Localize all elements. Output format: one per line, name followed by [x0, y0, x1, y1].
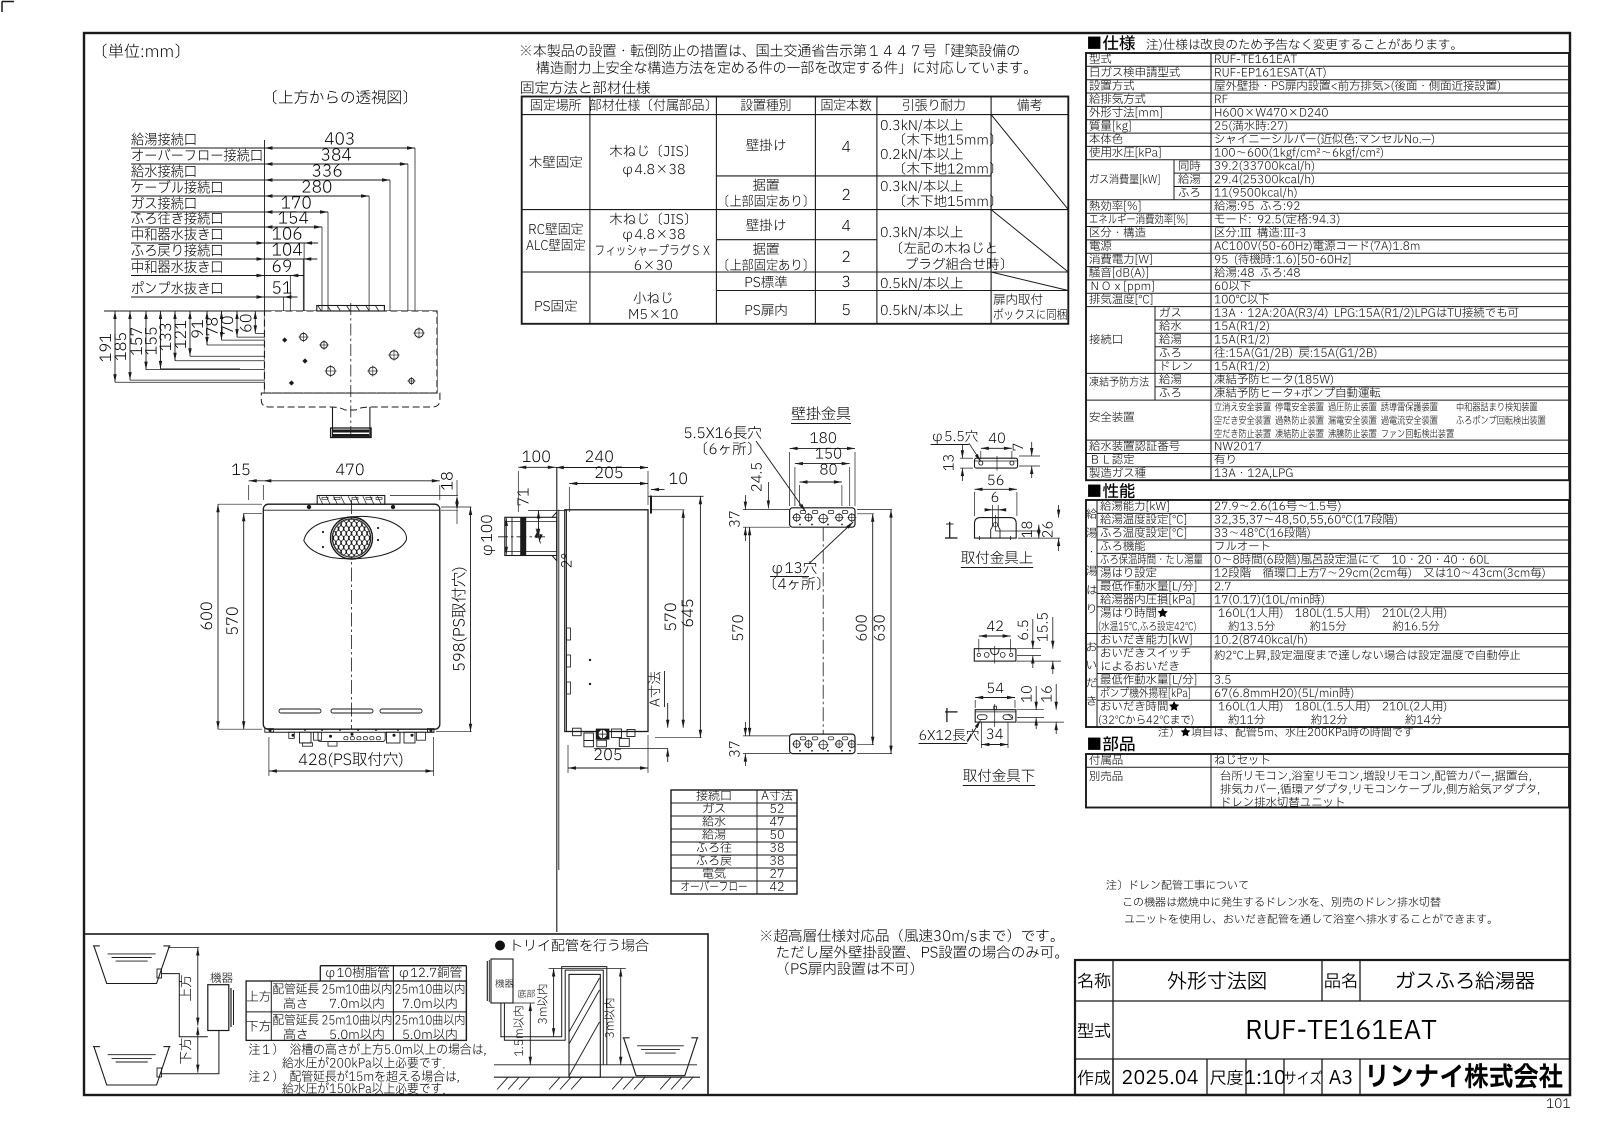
- upper tub: [94, 946, 169, 984]
- corner tabs: [265, 729, 274, 733]
- label 中和器水抜き口: [132, 228, 221, 241]
- exhaust duct top view: [333, 407, 370, 437]
- spec row 質量[kg]: [1089, 120, 1130, 132]
- perf row ふろ保温時間・たし湯量: [1101, 554, 1203, 564]
- dim 2deg: [561, 554, 571, 568]
- dim 104: [265, 258, 318, 260]
- dim 18: [441, 472, 453, 489]
- vdim 78: [221, 311, 223, 340]
- upper fitting title: [961, 551, 1032, 564]
- dim 205 top: [569, 483, 648, 485]
- dim 100: [518, 466, 556, 468]
- label 中和器水抜き口: [132, 260, 221, 273]
- dim 24.5: [751, 463, 762, 491]
- perf row 給湯器内圧損[kPa]: [1100, 594, 1194, 605]
- spec row 日ガス検申請型式: [1091, 67, 1180, 77]
- hole note: [773, 561, 817, 576]
- bottom flange outline: [261, 393, 440, 410]
- title row3: [1112, 1059, 1114, 1095]
- upper fitting plate2 (hook): [975, 518, 1017, 539]
- torii dim 3m right: [620, 969, 622, 1065]
- updown dims: [197, 948, 199, 1026]
- label 給湯接続口: [131, 133, 195, 146]
- vdim 60: [254, 311, 256, 333]
- slot note: [685, 426, 762, 439]
- device top-view dashed body: [265, 311, 438, 393]
- left vertical dims group: [104, 310, 265, 312]
- unit note: [103, 43, 179, 58]
- spec row 給排気方式: [1089, 93, 1145, 103]
- dim 6: [992, 492, 999, 502]
- spec row 外形寸法[mm]: [1089, 107, 1161, 118]
- dim 154: [265, 226, 323, 228]
- freeze prevention rows: [1154, 373, 1156, 400]
- corner trim mark: [2, 1, 14, 3]
- spec row 騒音[dB(A)]: [1086, 279, 1569, 281]
- upper fitting plate1: [975, 458, 1018, 468]
- machine box: [208, 985, 229, 1031]
- torii piping title: [495, 941, 505, 951]
- dim 18: [1022, 522, 1033, 538]
- dim 37 top: [729, 511, 740, 527]
- title block: [1075, 960, 1570, 1095]
- dim 10: [1021, 686, 1032, 702]
- col2 parts: [610, 145, 688, 157]
- spec row 設置方式: [1090, 80, 1134, 90]
- phi5.5 note: [933, 430, 978, 444]
- oidaki rows: [1101, 634, 1191, 645]
- title row2: [1078, 1023, 1110, 1038]
- label ポンプ水抜き口: [132, 281, 222, 294]
- bottom vents: [279, 709, 321, 713]
- spec row ＮＯｘ[ppm]: [1086, 292, 1569, 294]
- slot note lower: [920, 729, 979, 741]
- side wall line: [556, 467, 558, 932]
- dim 280: [265, 195, 370, 197]
- perf row 最低作動水量[L/分]: [1101, 581, 1197, 592]
- page number 101: [1547, 1098, 1570, 1108]
- kabekake bottom plate: [790, 734, 855, 754]
- screws on top edge: [307, 505, 311, 509]
- top plate holes: [793, 514, 800, 521]
- fan grille: [331, 517, 373, 559]
- dim 6.5: [1018, 620, 1028, 639]
- dim 150: [795, 463, 850, 465]
- dim 170: [265, 211, 329, 213]
- piping length table: [320, 965, 466, 967]
- col4 counts: [842, 141, 850, 152]
- vdim 185: [129, 311, 131, 380]
- dim 180: [790, 447, 855, 449]
- spec row 使用水圧[kPa]: [1089, 147, 1160, 158]
- spec row エネルギー消費効率[%]: [1086, 226, 1569, 228]
- spec table grid: [1086, 53, 1569, 480]
- drain note: [1106, 880, 1247, 890]
- top view title: [273, 90, 407, 104]
- datum L mark upper: [949, 522, 951, 538]
- dim 600: [217, 504, 219, 729]
- dim 51: [265, 296, 298, 298]
- exhaust pipe side: [505, 517, 557, 555]
- dim 13: [943, 455, 954, 470]
- dim 26: [1042, 522, 1053, 537]
- perf row ふろ機能: [1101, 540, 1145, 550]
- dim 570 side: [682, 510, 684, 728]
- dim 240: [556, 467, 648, 469]
- spec row 排気温度[℃]: [1086, 306, 1569, 308]
- torii dim 3m left: [553, 969, 555, 1037]
- vdim 121: [189, 311, 191, 356]
- dim 69: [265, 275, 305, 277]
- dim phi100: [505, 518, 507, 555]
- lower fitting title: [963, 769, 1034, 782]
- torii machine: [491, 959, 513, 1003]
- last simple rows: [1086, 439, 1569, 441]
- vdim 155: [160, 311, 162, 369]
- dim 470: [263, 480, 440, 482]
- label ケーブル接続口: [132, 180, 222, 193]
- vdim 133: [174, 311, 176, 361]
- spec row 熱効率[%]: [1086, 212, 1569, 214]
- small diamonds: [282, 337, 287, 342]
- dim 630: [890, 510, 892, 754]
- bottom connectors: [289, 732, 295, 738]
- dim 37 bottom: [729, 741, 740, 757]
- dim 42: [979, 635, 1011, 637]
- perf row 湯はり設定: [1100, 567, 1156, 577]
- vdim 91: [206, 311, 208, 345]
- vertical group labels: [1086, 508, 1097, 518]
- dim 598 right: [470, 507, 472, 732]
- perf table grid: [1086, 500, 1569, 727]
- dim 15.5: [1037, 613, 1047, 641]
- front top bracket: [317, 496, 385, 505]
- perf yuhari time row: [1100, 607, 1167, 617]
- connection rows: [1154, 307, 1156, 374]
- center dash-dot: [351, 500, 353, 729]
- side dots: [589, 659, 591, 661]
- label ふろ往き接続口: [132, 212, 222, 225]
- lower tub: [94, 1047, 169, 1085]
- dim 54: [975, 697, 1015, 699]
- torii pipe (double line): [501, 967, 607, 1065]
- spec row 本体色: [1090, 134, 1123, 144]
- torii dim 1.5m: [529, 1003, 531, 1065]
- perf row 給湯温度設定[℃]: [1100, 514, 1186, 525]
- vdim 70: [236, 311, 238, 337]
- lower plate1: [974, 649, 1016, 661]
- fixing table header: [531, 99, 581, 111]
- col5 strength: [881, 119, 963, 132]
- fixing table title: [521, 81, 650, 94]
- dim 40: [981, 447, 1012, 449]
- label 給水接続口: [131, 165, 195, 178]
- fan shield: [304, 516, 407, 558]
- dim 205 bottom: [568, 767, 648, 769]
- bottom strip box: [84, 934, 708, 1095]
- spec row 区分・構造: [1086, 239, 1569, 241]
- title row1: [1078, 973, 1111, 989]
- dim 7: [1013, 444, 1023, 451]
- shield screws: [322, 531, 324, 533]
- fixing table grid: [522, 97, 1069, 324]
- datum L mark lower: [946, 708, 948, 722]
- vdim 157: [145, 311, 147, 370]
- side louver slits: [567, 628, 571, 640]
- dim 16: [1041, 686, 1051, 702]
- spec row 消費電力[W]: [1086, 266, 1569, 268]
- vertical reference line: [264, 140, 266, 311]
- dim 71: [538, 511, 540, 537]
- dim 403: [265, 147, 416, 149]
- col1 row labels: [529, 156, 581, 168]
- ground line: [494, 1076, 700, 1078]
- kabekake center line: [822, 527, 824, 734]
- side body: [565, 510, 648, 732]
- col3 type: [746, 139, 785, 151]
- dim 384: [265, 163, 408, 165]
- dim 336: [265, 179, 391, 181]
- kabekake title: [792, 406, 851, 420]
- label オーバーフロー接続口: [132, 149, 261, 162]
- label ふろ戻り接続口: [132, 244, 222, 257]
- high-rise note: [761, 929, 1055, 944]
- parts table: [1086, 754, 1569, 808]
- dim 428 bottom: [269, 770, 434, 772]
- side bottom connectors: [573, 728, 582, 736]
- dim 106: [265, 242, 319, 244]
- A dim label: [648, 672, 660, 707]
- front view body: [263, 504, 440, 729]
- top bracket strip: [317, 306, 385, 312]
- installation notice: [521, 44, 1019, 57]
- dim 570 bracket: [749, 527, 751, 736]
- torii wall: [569, 974, 600, 1077]
- A-dim table: [671, 790, 797, 894]
- pipe center line: [498, 536, 545, 538]
- 備考 diagonals: [991, 115, 1068, 210]
- performance heading: [1088, 483, 1134, 498]
- dim 34: [981, 744, 1008, 746]
- piping to machine: [162, 974, 208, 1037]
- notes 1 2: [249, 1043, 485, 1056]
- torii right tub: [624, 1038, 698, 1076]
- spec row 型式: [1090, 54, 1112, 64]
- perf row 給湯能力[kW]: [1100, 500, 1168, 511]
- dim 10: [651, 489, 665, 491]
- dim 600: [872, 514, 874, 745]
- vdim 191: [114, 311, 116, 382]
- center dash-dot line: [350, 303, 352, 439]
- dim 80: [800, 481, 842, 483]
- dim 645 side: [699, 496, 701, 737]
- perf row ふろ温度設定[℃]: [1101, 527, 1186, 538]
- gas consumption rows: [1086, 159, 1569, 161]
- parts heading: [1088, 736, 1134, 751]
- front bottom connector line: [270, 731, 434, 733]
- col6 remark: [994, 293, 1043, 305]
- dim 570: [243, 513, 245, 729]
- spec heading: [1088, 35, 1135, 50]
- perf note: [1158, 727, 1413, 737]
- connector circles: [300, 333, 307, 340]
- kabekake top plate: [790, 508, 855, 527]
- spec row 電源: [1086, 252, 1569, 254]
- safety row: [1086, 399, 1569, 401]
- lower plate2: [975, 710, 1016, 722]
- label ガス接続口: [132, 197, 195, 210]
- side top back bracket: [650, 496, 652, 514]
- dim 56: [975, 488, 1017, 490]
